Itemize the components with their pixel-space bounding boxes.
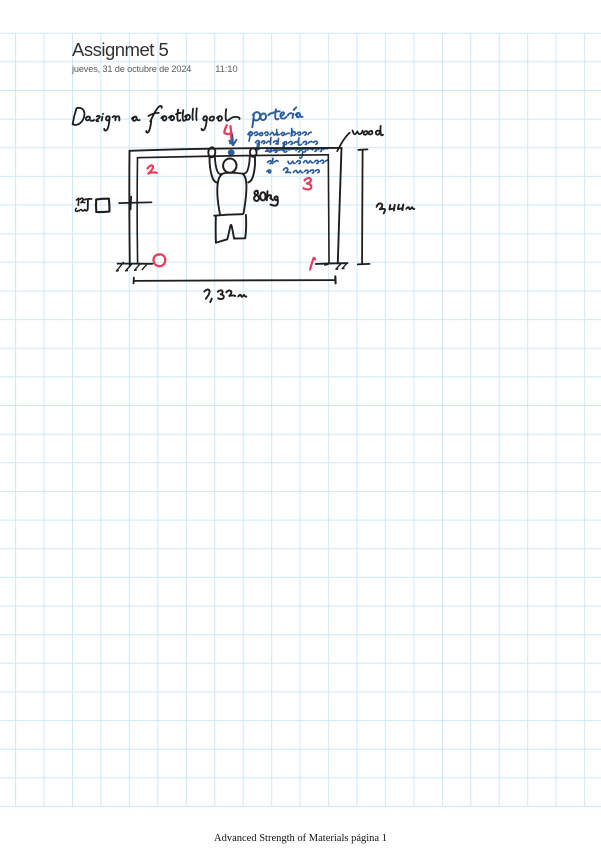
- blue dot on bar: [228, 150, 235, 156]
- leader line 12cm: [119, 197, 152, 210]
- handwriting "Design a football goal": [73, 106, 240, 133]
- red label 1: [310, 258, 315, 270]
- label "7,32m": [204, 289, 246, 302]
- figure left hand: [208, 147, 216, 157]
- blue arrow: [229, 135, 236, 146]
- red label 4: [224, 125, 231, 143]
- dimension line 2.44m: [358, 149, 370, 264]
- date line: [72, 64, 238, 74]
- handwriting "wood" with leader: [337, 126, 383, 151]
- footer: [0, 833, 601, 844]
- goal crossbar inner line: [138, 155, 329, 158]
- ground line left: [116, 262, 152, 271]
- figure head: [223, 158, 237, 173]
- blue note line 1 "podemos hacer": [248, 128, 311, 141]
- goal crossbar outer line: [130, 148, 342, 151]
- red label 3: [303, 178, 311, 190]
- red label 0: [154, 254, 166, 266]
- goal left post outer: [128, 151, 130, 266]
- blue note line 4 "de une mano": [268, 158, 329, 163]
- dimension line 7.32m: [134, 276, 336, 283]
- figure left arm: [209, 157, 222, 183]
- label "12cm" cross-section: [75, 198, 91, 211]
- figure shorts and legs: [216, 215, 246, 243]
- goal left post inner: [136, 158, 138, 264]
- red label 2: [148, 165, 157, 173]
- goal right post outer: [338, 148, 342, 264]
- blue note line 5 "o 2 manos": [267, 168, 319, 173]
- page title: [72, 39, 168, 61]
- blue note line 3 "este agarrado" (scribbled): [266, 143, 328, 158]
- blue note line 2 "que el portero": [256, 138, 318, 151]
- handwriting "80kg": [254, 191, 278, 206]
- label "2,44m": [377, 203, 415, 213]
- ground line right: [316, 263, 348, 269]
- cross-section square: [96, 199, 109, 212]
- figure waistband: [214, 214, 242, 216]
- goal right post inner: [325, 155, 329, 265]
- figure torso: [217, 173, 246, 214]
- figure right arm: [243, 157, 255, 183]
- figure right hand: [250, 148, 257, 157]
- handwriting "porteria" (blue): [252, 107, 302, 127]
